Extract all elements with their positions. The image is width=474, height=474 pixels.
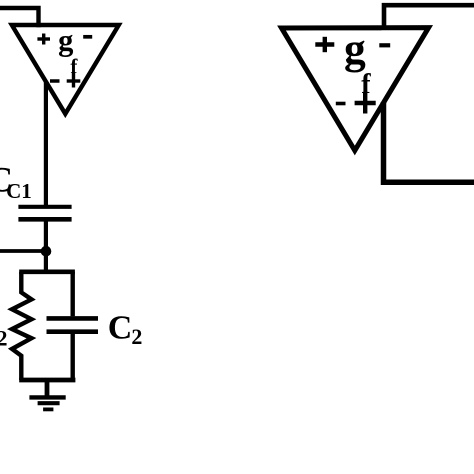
svg-text:2: 2 — [0, 325, 8, 350]
svg-text:f: f — [361, 69, 371, 100]
svg-text:f: f — [70, 54, 78, 78]
svg-text:g: g — [58, 23, 73, 57]
svg-text:g: g — [344, 25, 366, 73]
svg-text:2: 2 — [131, 324, 142, 349]
svg-text:C1: C1 — [6, 179, 32, 203]
svg-text:C: C — [108, 309, 133, 346]
